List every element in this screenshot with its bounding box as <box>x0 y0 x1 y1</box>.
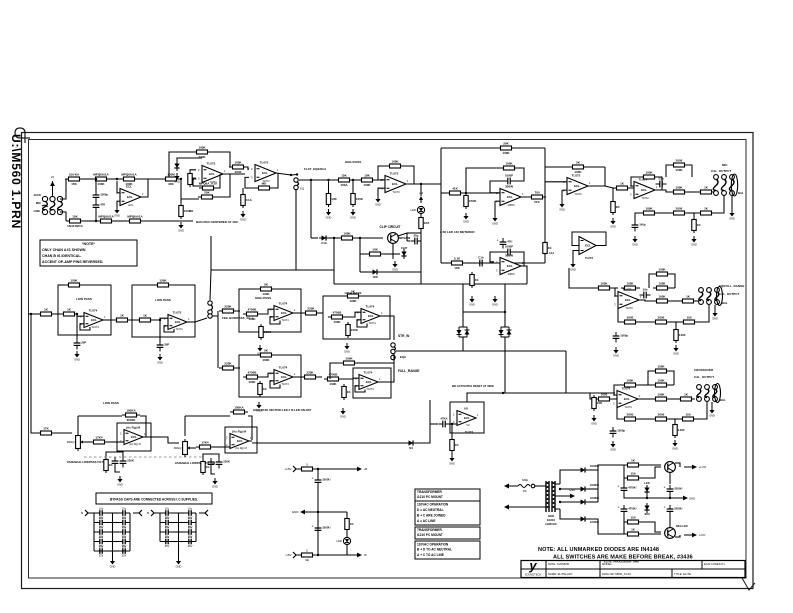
capacitor C8 <box>656 177 667 188</box>
wire W156 <box>159 320 161 341</box>
wire W91 <box>462 337 464 351</box>
svg-text:20P: 20P <box>164 343 169 347</box>
svg-text:10u: 10u <box>122 516 127 520</box>
ground G31 <box>340 408 346 419</box>
svg-text:ECL: ECL <box>131 435 137 439</box>
wire W73 <box>464 192 500 194</box>
wire W45 <box>407 232 421 234</box>
bypass capacitor C37 <box>184 535 196 548</box>
resistor R57 <box>652 393 670 401</box>
svg-text:47K: 47K <box>100 203 105 207</box>
wire W135 <box>670 384 674 386</box>
wire W232 <box>195 513 197 542</box>
wire W233 <box>160 541 196 543</box>
wire W48 <box>329 237 338 239</box>
wire W168 <box>357 320 367 327</box>
svg-text:2000: 2000 <box>627 413 634 417</box>
svg-text:TL074: TL074 <box>89 309 98 313</box>
wire W94 <box>504 337 506 351</box>
svg-text:17K: 17K <box>43 427 49 431</box>
resistor R42 <box>692 217 702 233</box>
svg-text:3.5K LED 140 METERED: 3.5K LED 140 METERED <box>440 230 475 234</box>
svg-text:100K: 100K <box>351 328 359 332</box>
wire W223 <box>173 512 184 514</box>
net arrow N5 <box>684 533 706 538</box>
svg-text:GND: GND <box>117 483 123 487</box>
wire W238 <box>305 511 347 513</box>
svg-text:BD ACTIVATES RESET AT 30Db: BD ACTIVATES RESET AT 30Db <box>452 384 494 388</box>
ground G12 <box>570 261 576 272</box>
wire W52 <box>406 233 408 241</box>
svg-text:100K: 100K <box>645 171 653 175</box>
resistor R66 <box>60 308 78 316</box>
wire W25 <box>215 174 230 197</box>
svg-text:LED: LED <box>644 481 649 485</box>
svg-text:HIGH PASS: HIGH PASS <box>255 296 271 300</box>
resistor R40 <box>670 207 688 215</box>
svg-text:ECL: ECL <box>281 311 287 315</box>
wire W141 <box>670 418 679 420</box>
wire W60 <box>420 272 422 284</box>
wire W211 <box>94 531 95 533</box>
op-amp U17 <box>120 426 146 447</box>
capacitor C42 <box>618 505 637 516</box>
svg-text:ACCENT OP-AMP PINS REVERSED.: ACCENT OP-AMP PINS REVERSED. <box>42 260 103 264</box>
bypass capacitor C36 <box>161 535 173 548</box>
wire W106 <box>688 191 697 193</box>
wire W92 <box>504 312 506 327</box>
svg-text:GND: GND <box>392 268 398 272</box>
op-amp U7 <box>496 254 524 277</box>
wire W4 <box>110 178 120 180</box>
svg-text:(Ax Rg) M: (Ax Rg) M <box>235 446 247 450</box>
wire W167 <box>346 312 361 317</box>
svg-text:CLIP: CLIP <box>401 246 408 250</box>
resistor R45 <box>653 268 671 276</box>
resistor R11 <box>198 191 216 199</box>
svg-text:1190VAC: 1190VAC <box>545 522 557 526</box>
wire W148 <box>103 319 111 321</box>
svg-text:TL074: TL074 <box>279 302 288 306</box>
resistor R24 <box>497 142 515 156</box>
svg-text:GND: GND <box>326 216 332 220</box>
svg-text:TL072: TL072 <box>175 327 183 331</box>
wire W140 <box>639 418 652 420</box>
resistor R76 <box>344 290 362 304</box>
op-amp U4 <box>381 172 409 195</box>
wire W213 <box>94 541 95 543</box>
svg-text:1400: 1400 <box>678 428 685 432</box>
wire W51 <box>398 233 407 236</box>
svg-text:CLIP CIRCUIT: CLIP CIRCUIT <box>379 225 400 229</box>
svg-text:GND: GND <box>463 220 469 224</box>
svg-text:4700U: 4700U <box>628 486 636 490</box>
wire W12 <box>116 181 118 193</box>
svg-text:GND: GND <box>712 317 718 321</box>
svg-text:B + D TO AC NEUTRAL: B + D TO AC NEUTRAL <box>417 548 452 552</box>
wire W47 <box>311 237 318 239</box>
resistor R87 <box>37 427 55 435</box>
wire W89 <box>462 284 464 327</box>
svg-text:100K: 100K <box>234 161 242 165</box>
net +B supply arrow <box>419 191 423 203</box>
resistor R5 <box>97 215 115 223</box>
wire W257 <box>623 465 625 478</box>
svg-text:140p: 140p <box>639 223 646 227</box>
svg-text:ECL: ECL <box>262 171 268 175</box>
wire W254 <box>642 464 661 466</box>
svg-text:20P: 20P <box>81 341 86 345</box>
resistor R25 <box>569 161 587 175</box>
diode pair D reset A <box>457 327 470 337</box>
resistor R92 <box>201 459 211 475</box>
svg-text:100: 100 <box>685 413 690 417</box>
wire W226 <box>160 531 161 533</box>
wire W242 <box>316 554 352 556</box>
wire W159 <box>237 310 240 312</box>
svg-text:1000P: 1000P <box>505 245 513 249</box>
transistor Q1 <box>388 233 411 244</box>
resistor R65 <box>65 279 83 287</box>
svg-text:100K: 100K <box>600 282 608 286</box>
resistor R54 <box>621 379 639 387</box>
ground G18 <box>729 210 735 221</box>
resistor R53 <box>595 393 613 401</box>
wire W184 <box>55 432 72 434</box>
bypass capacitor C32 <box>161 516 173 529</box>
svg-text:GND: GND <box>610 225 616 229</box>
connector J3 <box>151 510 160 516</box>
note box bypass caps <box>96 493 212 504</box>
ground G16 <box>632 236 638 247</box>
svg-text:10u: 10u <box>122 506 127 510</box>
svg-text:100K: 100K <box>345 357 353 361</box>
wire W153 <box>154 318 168 320</box>
resistor R70 <box>219 305 237 313</box>
resistor R61 <box>679 413 697 421</box>
wire W210 <box>107 522 118 524</box>
svg-text:100K: 100K <box>505 162 513 166</box>
svg-text:GND: GND <box>689 497 695 501</box>
wire W258 <box>605 464 624 466</box>
svg-text:100K: 100K <box>356 197 364 201</box>
wire W125 <box>618 309 621 322</box>
ground G19 <box>712 310 718 321</box>
resistor R58 <box>677 393 695 401</box>
wire W164 <box>293 312 301 314</box>
wire W231 <box>178 513 180 547</box>
wire W175 <box>319 376 322 378</box>
svg-text:25V: 25V <box>188 544 193 548</box>
resistor R78 <box>346 322 359 338</box>
resistor R56 <box>652 379 670 387</box>
op-amp U6b buffer <box>572 232 606 246</box>
wire W95 <box>396 350 566 352</box>
wire W225 <box>173 522 184 524</box>
ground G30 <box>256 402 262 413</box>
wire W61 <box>441 147 545 149</box>
svg-text:150: 150 <box>630 472 635 476</box>
svg-text:100K: 100K <box>262 358 270 362</box>
net arrow N3 <box>349 553 367 558</box>
jack J-IN contacts <box>42 196 63 214</box>
svg-text:10u: 10u <box>188 535 193 539</box>
diode D11 <box>578 516 588 521</box>
resistor R75 <box>302 307 320 315</box>
resistor R96 <box>298 549 316 563</box>
svg-text:HIGH PASS SECTION LED # IS LED: HIGH PASS SECTION LED # IS LED ON-OFF <box>253 408 312 412</box>
svg-text:110VAC OPERATION: 110VAC OPERATION <box>417 542 449 546</box>
HIGH PASS box 1 <box>239 289 301 332</box>
resistor R82 <box>301 371 319 379</box>
diode D13 <box>644 503 649 513</box>
svg-text:ECL: ECL <box>507 195 513 199</box>
wire W83 <box>514 252 524 266</box>
wire W234 <box>178 547 180 559</box>
svg-text:ECL: ECL <box>209 172 215 176</box>
svg-text:4700U: 4700U <box>628 507 636 511</box>
wire W265 <box>669 515 671 530</box>
resistor R18 <box>326 191 337 207</box>
wire W114 <box>731 195 733 210</box>
wire W54 <box>360 253 366 255</box>
svg-text:700: 700 <box>534 191 539 195</box>
svg-text:I1210 PC MOUNT: I1210 PC MOUNT <box>417 495 443 499</box>
resistor R13 <box>229 161 247 175</box>
svg-text:470R: 470R <box>469 199 477 203</box>
svg-text:FREQ: FREQ <box>174 446 183 450</box>
wire W22 <box>214 174 220 188</box>
svg-text:STR_IN: STR_IN <box>398 334 410 338</box>
svg-text:-B: -B <box>364 553 367 557</box>
capacitor C4 <box>504 174 515 185</box>
resistor R48 <box>679 295 697 303</box>
svg-text:TL074: TL074 <box>279 366 288 370</box>
wire W143 <box>674 419 676 422</box>
wire W1 <box>52 188 54 196</box>
svg-text:15K: 15K <box>72 215 78 219</box>
wire W139 <box>617 408 621 419</box>
resistor R67 <box>113 314 131 322</box>
svg-text:150: 150 <box>630 516 635 520</box>
resistor R97 <box>624 459 642 467</box>
wire W96 <box>565 351 567 393</box>
svg-text:MPQ6A/1A: MPQ6A/1A <box>98 215 114 219</box>
svg-text:EQ/FULL_RANGE: EQ/FULL_RANGE <box>719 284 744 288</box>
svg-text:TL072: TL072 <box>585 256 594 260</box>
svg-text:MPQ6A/1A: MPQ6A/1A <box>93 173 109 177</box>
svg-text:C1A: C1A <box>246 198 253 202</box>
svg-text:LOW PASS: LOW PASS <box>103 401 119 405</box>
wire W32 <box>242 188 244 192</box>
wire W260 <box>669 472 671 484</box>
svg-text:10u: 10u <box>99 506 104 510</box>
wire W72 <box>441 192 446 194</box>
svg-text:GND: GND <box>632 243 638 247</box>
resistor R84 <box>324 373 342 387</box>
wire W70 <box>495 200 500 202</box>
svg-text:GND: GND <box>709 414 715 418</box>
svg-text:SOUNDTECH: SOUNDTECH <box>525 573 542 577</box>
resistor R19 <box>351 191 364 207</box>
resistor R47 <box>653 295 671 303</box>
wire W236 <box>317 469 319 476</box>
wire W23 <box>180 179 182 203</box>
svg-text:GND: GND <box>691 243 697 247</box>
svg-text:1500p: 1500p <box>617 429 625 433</box>
wire W149 <box>58 284 65 286</box>
svg-text:10u: 10u <box>122 544 127 548</box>
resistor R17 <box>358 174 376 188</box>
svg-text:A + C TO AC LINE: A + C TO AC LINE <box>417 553 444 557</box>
wire W112 <box>693 213 695 217</box>
svg-text:GND: GND <box>492 222 498 226</box>
svg-text:25V: 25V <box>165 544 170 548</box>
wire W181 <box>77 416 79 434</box>
LOW PASS box 1 <box>58 285 111 335</box>
svg-text:+: + <box>618 506 620 510</box>
resistor R52 <box>674 327 686 343</box>
wire W117 <box>649 274 653 288</box>
wire W178 <box>378 354 394 382</box>
svg-text:D = AC NEUTRAL: D = AC NEUTRAL <box>417 508 444 512</box>
svg-text:ECL: ECL <box>641 188 647 192</box>
svg-text:TL072: TL072 <box>574 192 582 196</box>
capacitor C19 <box>439 417 450 428</box>
wire W27 <box>229 166 231 168</box>
resistor R63 <box>592 395 603 411</box>
svg-text:1N4148/CA: 1N4148/CA <box>67 224 84 228</box>
svg-text:308/N: 308/N <box>508 203 515 207</box>
wire W185 <box>84 441 90 443</box>
wire W77 <box>561 190 563 201</box>
svg-text:+: + <box>312 525 314 529</box>
resistor R16 <box>335 174 353 188</box>
svg-text:EQA: EQA <box>400 355 406 359</box>
gang line (dashed) <box>84 456 203 458</box>
svg-text:2000: 2000 <box>658 413 665 417</box>
svg-text:N4: N4 <box>409 446 413 450</box>
wire W243 <box>346 551 348 555</box>
wire W239 <box>346 512 348 516</box>
wire W30 <box>245 177 255 188</box>
ground G13 <box>469 296 475 307</box>
title block <box>521 558 745 578</box>
wire W212 <box>107 531 118 533</box>
svg-text:47U: 47U <box>507 240 512 244</box>
capacitor C18 <box>216 458 230 469</box>
svg-text:ECL: ECL <box>237 439 243 443</box>
transistor Q2 <box>665 462 676 473</box>
resistor R33 <box>613 182 631 190</box>
op-amp U9 <box>614 288 642 311</box>
svg-text:GND: GND <box>469 303 475 307</box>
op-amp U13 <box>270 302 296 323</box>
wire vertical to clip <box>310 180 312 238</box>
svg-text:(Ax Rg) M: (Ax Rg) M <box>126 426 140 430</box>
wire W66 <box>587 166 605 168</box>
svg-text:10u: 10u <box>165 535 170 539</box>
diode D5 <box>370 269 380 278</box>
svg-text:100K: 100K <box>248 380 256 384</box>
wire W237 <box>317 486 319 555</box>
ground G5 <box>326 209 332 220</box>
note box <box>415 501 480 525</box>
wire W229 <box>173 541 184 543</box>
resistor R73 <box>243 308 261 322</box>
wire W46 <box>407 240 410 242</box>
wire W103 <box>666 165 670 177</box>
svg-text:10K: 10K <box>454 266 460 270</box>
wire W53 <box>359 238 361 272</box>
svg-text:10n: 10n <box>643 288 648 292</box>
wire W249 <box>588 465 605 470</box>
svg-text:+B: +B <box>419 191 423 195</box>
svg-text:15K: 15K <box>71 182 77 186</box>
bypass capacitor C26 <box>95 535 107 548</box>
capacitor C10 <box>640 288 651 299</box>
wire W129 <box>675 322 677 327</box>
diode D-in <box>50 175 55 188</box>
svg-text:1500p: 1500p <box>100 193 108 197</box>
transistor Q3 <box>665 528 676 539</box>
resistor R10 <box>199 182 218 190</box>
wire W86 <box>486 262 494 264</box>
svg-text:10u: 10u <box>99 535 104 539</box>
resistor R6 <box>126 215 144 223</box>
svg-text:LED: LED <box>337 539 342 543</box>
svg-text:TL074: TL074 <box>366 387 374 391</box>
op-amp U14 <box>357 305 383 326</box>
op-amp U2 <box>198 162 226 185</box>
resistor R8 <box>162 173 180 187</box>
note box <box>415 527 480 539</box>
svg-text:TL072: TL072 <box>465 430 474 434</box>
wire W97 <box>498 392 615 394</box>
wire W137 <box>670 398 680 400</box>
svg-text:220K: 220K <box>306 371 314 375</box>
wire W162 <box>261 309 274 314</box>
svg-text:+B: +B <box>364 467 368 471</box>
capacitor C14 <box>157 341 170 352</box>
svg-text:GND: GND <box>350 216 356 220</box>
GND arrow secondary <box>566 488 575 498</box>
svg-text:TL072: TL072 <box>392 190 400 194</box>
wire W14 <box>116 201 118 207</box>
svg-text:10u: 10u <box>99 525 104 529</box>
svg-text:GND: GND <box>375 203 381 207</box>
svg-text:GND: GND <box>559 208 565 212</box>
resistor R80 <box>243 371 261 385</box>
switch EQA <box>391 343 406 360</box>
wire W116 <box>615 288 618 296</box>
op-amp U6 <box>563 174 591 197</box>
wire vertical EQ bus <box>295 190 297 270</box>
svg-text:FREQ: FREQ <box>67 440 76 444</box>
resistor R98 <box>624 472 642 480</box>
wire W120 <box>671 287 675 289</box>
wire W49 <box>356 237 383 239</box>
wire W235 <box>316 468 352 470</box>
svg-text:-15V: -15V <box>285 553 291 557</box>
diode D10 <box>578 499 588 504</box>
resistor R38 <box>611 199 621 215</box>
wire W189 <box>106 452 123 457</box>
op-amp U8 <box>630 178 658 201</box>
resistor R89 <box>104 457 114 473</box>
wire W222 <box>160 512 161 514</box>
svg-text:10K: 10K <box>331 197 337 201</box>
